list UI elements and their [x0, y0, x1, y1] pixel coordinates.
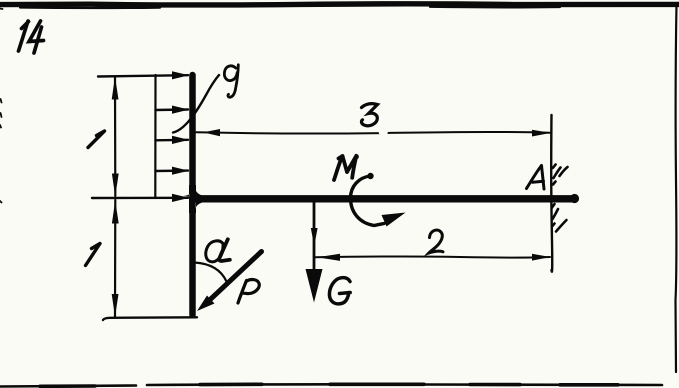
- dim arrow up top: [112, 77, 119, 100]
- frame bottom border: [0, 386, 136, 387]
- angle alpha arc: [195, 263, 227, 282]
- dim arrow up mid: [112, 201, 119, 224]
- force P label: [238, 280, 259, 303]
- wall line at A: [551, 115, 552, 272]
- load arrow 3: [156, 139, 189, 142]
- label 3: [361, 104, 377, 126]
- force G mid tick: [311, 228, 318, 246]
- label 14: [19, 21, 44, 53]
- wall hatching lower: [552, 204, 567, 232]
- load arrow 1 (top, also top tick): [98, 75, 188, 76]
- beam: [193, 195, 574, 202]
- label 1 (top segment): [88, 131, 105, 148]
- dimension line 2: [314, 256, 550, 257]
- force P arrowhead: [197, 296, 215, 312]
- support label A: [527, 166, 545, 190]
- load arrow 2: [156, 108, 189, 111]
- column bar: [189, 75, 196, 315]
- distributed load left edge: [154, 75, 156, 198]
- moment arrowhead: [382, 213, 406, 227]
- force P line: [207, 252, 262, 303]
- dim arrow down bottom: [112, 294, 119, 317]
- dim 2 left arrowhead: [317, 254, 340, 261]
- dim 3 right arrowhead: [532, 130, 551, 137]
- frame top border: [0, 4, 679, 5]
- moment label M: [334, 155, 359, 181]
- leader line for q: [173, 75, 219, 133]
- moment arc: [351, 176, 385, 226]
- dim 3 left arrowhead: [203, 129, 220, 136]
- beam end blob: [570, 194, 579, 203]
- left dimension line: [114, 77, 117, 317]
- label 1 (bottom segment): [86, 244, 101, 266]
- load arrow 4: [156, 169, 189, 172]
- frame right border: [676, 4, 677, 372]
- label 2: [429, 230, 443, 253]
- dim 2 right arrowhead: [532, 254, 551, 261]
- wall hatching upper: [553, 165, 568, 185]
- angle alpha label: [206, 239, 230, 262]
- dim arrow down mid: [112, 174, 119, 197]
- force G line: [313, 202, 316, 275]
- force G arrowhead: [306, 269, 323, 303]
- load label q: [224, 65, 238, 97]
- force G label: [329, 278, 350, 304]
- bar-beam junction fillet: [183, 185, 208, 213]
- dimension line 3: [196, 132, 550, 134]
- scan specks left edge: [0, 9, 3, 203]
- load arrow 5 (bottom, also middle tick): [92, 197, 188, 200]
- bottom tick: [103, 317, 197, 320]
